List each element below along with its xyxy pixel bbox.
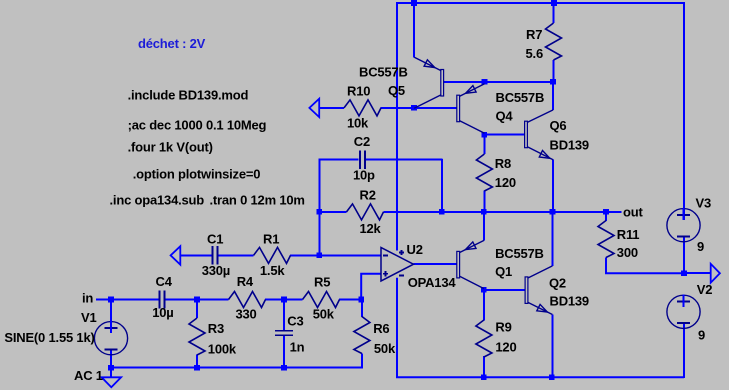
wire R1 to opamp inverting input: [290, 254, 381, 256]
svg-text:R6: R6: [373, 321, 389, 336]
svg-text:R7: R7: [526, 27, 542, 42]
svg-text:AC 1: AC 1: [74, 368, 103, 383]
junction at 284,367.7: [281, 365, 287, 371]
wire R9 bottom lead: [483, 356, 485, 378]
svg-text:120: 120: [495, 175, 516, 190]
op-amp U2 OPA134: [381, 242, 456, 290]
junction at 361.2,299.5: [358, 297, 364, 303]
wire R2 to out node: [384, 211, 607, 213]
ground flag left of R10: [309, 99, 319, 117]
svg-text:R4: R4: [237, 274, 254, 289]
wire Q2 base: [484, 289, 525, 291]
svg-text:.four 1k V(out): .four 1k V(out): [128, 140, 213, 155]
junction at 484.5,81.8: [482, 79, 488, 85]
wire right rail to V3: [683, 2, 685, 220]
svg-text:.include BD139.mod: .include BD139.mod: [128, 88, 249, 103]
transistor Q1 BC557B: [457, 240, 544, 288]
voltage source V3: [667, 196, 711, 255]
junction at 483.9,211.9: [481, 209, 487, 215]
wire R11 top lead: [605, 212, 607, 221]
wire R10 to Q4 base: [381, 107, 457, 109]
resistor R4: [229, 274, 266, 322]
svg-text:Q6: Q6: [550, 118, 567, 133]
wire Q4 collector to R8: [483, 133, 485, 154]
junction at 319.3,255.4: [317, 253, 323, 259]
wire C3 top lead: [283, 300, 285, 332]
resistor R3: [189, 318, 237, 356]
svg-text:Q4: Q4: [496, 109, 514, 124]
svg-text:out: out: [623, 205, 643, 220]
junction at 554,3: [551, 0, 557, 6]
wire opamp V- supply and bottom rail: [397, 278, 684, 378]
wire C1 to R1: [218, 254, 253, 256]
svg-text:BD139: BD139: [550, 137, 589, 152]
capacitor C4: [152, 274, 173, 320]
wire C2 right vertical: [441, 159, 443, 213]
junction at 111,299.5: [108, 297, 114, 303]
transistor Q5 BC557B: [359, 57, 444, 108]
directive ac: [128, 117, 267, 132]
svg-text:330: 330: [236, 307, 257, 322]
junction at 553,81.8: [550, 79, 556, 85]
wire opamp noninverting input: [361, 274, 381, 300]
resistor R6: [354, 317, 396, 357]
svg-text:;ac dec 1000 0.1 10Meg: ;ac dec 1000 0.1 10Meg: [128, 117, 267, 132]
wire R3 top lead: [196, 300, 198, 319]
wire C2 left vertical: [318, 159, 320, 256]
wire R4 to R5: [265, 299, 303, 301]
wire C4 to R4: [165, 299, 228, 301]
svg-text:10µ: 10µ: [152, 305, 173, 320]
ground flag right of V2 V3 midpoint: [711, 264, 720, 283]
svg-text:V3: V3: [696, 196, 712, 211]
junction at 552.5,211.9: [550, 209, 556, 215]
svg-text:50k: 50k: [374, 341, 396, 356]
junction at 319.3,211.9: [317, 209, 323, 215]
wire out stub: [606, 211, 622, 213]
directive option: [133, 166, 261, 181]
ground flag at V1: [102, 368, 122, 388]
wire opamp output to Q1 base: [413, 263, 457, 265]
wire Q1 emitter vertical: [483, 212, 485, 241]
wire R7 top lead: [553, 3, 555, 23]
svg-text:9: 9: [697, 239, 704, 254]
resistor R8: [476, 154, 515, 191]
wire R11 bottom to supply midpoint: [606, 258, 685, 274]
svg-text:9: 9: [698, 328, 705, 343]
wire V2 V3 midpoint to flag: [684, 272, 711, 274]
wire Q6 collector vertical: [552, 82, 554, 110]
svg-text:330µ: 330µ: [202, 263, 230, 278]
wire V2 bottom lead: [683, 324, 685, 378]
directive include: [128, 88, 249, 103]
svg-text:SINE(0 1.55 1k): SINE(0 1.55 1k): [4, 330, 94, 345]
wire R6 top lead: [361, 300, 363, 318]
junction at 111,367.7: [108, 365, 114, 371]
svg-text:.option plotwinsize=0: .option plotwinsize=0: [133, 166, 261, 181]
wire Q5 base to Q6 collector node: [444, 81, 554, 83]
wire Q6 base: [484, 134, 524, 136]
node in label: [82, 291, 93, 306]
junction at 284,299.5: [281, 297, 287, 303]
capacitor C2: [353, 134, 375, 183]
wire R9 top lead: [483, 290, 485, 321]
junction at 551.9,377.3: [549, 375, 555, 381]
wire R3 bottom lead: [196, 355, 198, 369]
wire R10 flag lead: [319, 107, 345, 109]
svg-text:1.5k: 1.5k: [260, 263, 285, 278]
svg-text:Q2: Q2: [549, 276, 566, 291]
resistor R2: [347, 188, 384, 237]
svg-text:300: 300: [617, 245, 638, 260]
svg-text:Q1: Q1: [495, 264, 512, 279]
svg-text:R8: R8: [495, 156, 511, 171]
svg-text:Q5: Q5: [388, 83, 405, 98]
directive inc opa134: [110, 193, 205, 208]
junction at 414,3: [411, 0, 417, 6]
wire opamp V+ supply: [396, 3, 398, 251]
comment dechet: [138, 36, 206, 51]
wire C1 flag lead: [180, 254, 212, 256]
wire R2 left lead: [319, 211, 347, 213]
svg-text:R11: R11: [617, 227, 640, 242]
svg-text:12k: 12k: [360, 221, 382, 236]
svg-text:10p: 10p: [353, 168, 375, 183]
wire C2 left lead: [319, 159, 359, 161]
svg-text:R3: R3: [208, 321, 224, 336]
resistor R7: [526, 23, 562, 61]
junction at 483.9,377.3: [481, 375, 487, 381]
svg-text:1n: 1n: [290, 340, 305, 355]
node out label: [623, 205, 643, 220]
svg-text:R2: R2: [360, 188, 376, 203]
wire V1 bottom lead: [110, 349, 112, 368]
junction at 483.9,289.9: [481, 287, 487, 293]
svg-text:5.6: 5.6: [526, 46, 543, 61]
wire V3 bottom lead: [683, 237, 685, 273]
directive tran: [210, 193, 305, 208]
svg-text:100k: 100k: [208, 341, 237, 356]
junction at 197,299.5: [194, 297, 200, 303]
wire R6 bottom lead: [361, 354, 363, 369]
resistor R10: [344, 84, 381, 131]
svg-text:BC557B: BC557B: [496, 90, 545, 105]
resistor R11: [598, 221, 639, 261]
svg-text:120: 120: [495, 340, 516, 355]
svg-text:BD139: BD139: [550, 294, 589, 309]
wire R5 to R6 node: [339, 299, 361, 301]
svg-text:BC557B: BC557B: [359, 65, 408, 80]
svg-text:OPA134: OPA134: [408, 275, 457, 290]
voltage source V1: [4, 310, 127, 383]
transistor Q4 BC557B: [457, 84, 544, 133]
svg-text:R5: R5: [314, 275, 330, 290]
svg-text:R10: R10: [347, 84, 370, 99]
junction at 441.8,211.9: [439, 209, 445, 215]
svg-text:C3: C3: [287, 313, 303, 328]
svg-text:BC557B: BC557B: [495, 246, 544, 261]
wire V1 top lead: [110, 300, 112, 333]
wire Q2 emitter vertical: [551, 314, 553, 377]
svg-text:50k: 50k: [313, 307, 335, 322]
transistor Q2 BD139: [525, 266, 589, 315]
wire top positive rail: [396, 2, 685, 4]
resistor R9: [476, 320, 517, 357]
junction at 606,211.9: [603, 209, 609, 215]
wire Q6 emitter vertical: [552, 160, 554, 213]
transistor Q6 BD139: [525, 110, 589, 160]
svg-text:C4: C4: [156, 274, 173, 289]
svg-text:10k: 10k: [347, 116, 369, 131]
svg-text:.inc opa134.sub: .inc opa134.sub: [110, 193, 205, 208]
wire left ground rail: [111, 367, 362, 369]
wire C2 right lead: [365, 159, 443, 161]
svg-text:in: in: [82, 291, 93, 306]
wire R8 bottom lead: [483, 191, 485, 213]
wire V3 top pin: [683, 219, 685, 221]
svg-text:C1: C1: [207, 232, 223, 247]
svg-text:V1: V1: [81, 310, 97, 325]
wire Q5 emitter to rail: [413, 3, 415, 58]
capacitor C1: [202, 232, 230, 279]
voltage source V2: [667, 282, 712, 343]
svg-text:R9: R9: [495, 320, 511, 335]
svg-text:déchet : 2V: déchet : 2V: [138, 36, 206, 51]
svg-text:R1: R1: [263, 232, 279, 247]
junction at 684,273.2: [681, 270, 687, 276]
junction at 414,107.9: [411, 105, 417, 111]
wire in to C4: [96, 299, 159, 301]
ground flag left of C1: [171, 246, 181, 265]
svg-text:.tran 0 12m 10m: .tran 0 12m 10m: [210, 193, 305, 208]
svg-text:C2: C2: [354, 134, 370, 149]
svg-text:U2: U2: [407, 242, 423, 257]
resistor R5: [303, 275, 340, 322]
wire Q2 collector vertical: [551, 212, 553, 266]
svg-text:V2: V2: [697, 282, 713, 297]
junction at 197,367.7: [194, 365, 200, 371]
wire R7 bottom lead: [553, 60, 555, 82]
capacitor C3: [275, 313, 305, 354]
resistor R1: [254, 232, 291, 279]
directive four: [128, 140, 213, 155]
junction at 484.4,134.8: [482, 132, 488, 138]
wire C3 bottom lead: [283, 335, 285, 368]
